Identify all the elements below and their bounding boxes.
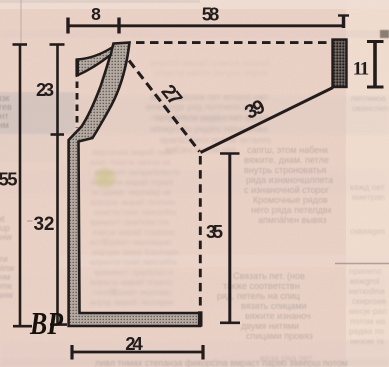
main pattern piece band (front band + welt + neckband) [69,43,200,327]
measure: 8 / 58 [67,24,344,27]
svg-text:35: 35 [206,221,223,242]
dashed centre front [76,82,79,129]
dashed side seam [199,156,202,307]
faint printing artifact tick [27,220,33,222]
measure: 24 [72,351,203,354]
measure: 23/32 [56,45,59,325]
right-mid paragraph 1 [244,145,333,225]
svg-text:23: 23 [36,79,54,100]
top light band [0,0,389,9]
shoulder strip [77,48,112,76]
right column [349,93,389,346]
svg-text:8: 8 [91,4,101,24]
dashed 27 diagonal [129,61,200,152]
left edge column [0,93,12,130]
faint rows in sleeve area [146,92,271,155]
svg-text:BP: BP [29,305,63,341]
faint mid-left mottled block [90,148,180,307]
svg-text:11: 11 [353,59,370,80]
faint column crease top-left [20,0,22,43]
svg-text:32: 32 [34,214,55,235]
svg-text:58: 58 [202,4,220,25]
bottom smudged row [95,353,348,367]
upper middle ultra faint [150,58,270,122]
39 sleeve underline [201,88,334,153]
soft streaks across [0,30,389,38]
right-mid paragraph 2 [217,271,313,341]
yellow-green stain [92,166,118,191]
svg-text:55: 55 [0,169,18,190]
svg-text:24: 24 [125,333,143,354]
right column lighter paper [346,0,389,367]
dashed top line [136,41,333,44]
measure: 35 [228,154,231,323]
grayish streak band left [0,92,75,134]
welt right end cap [198,311,203,326]
wide tonal bands [0,95,389,135]
measure: 11 [373,42,377,88]
measure: 55 [19,45,22,327]
cuff bar [333,40,347,88]
